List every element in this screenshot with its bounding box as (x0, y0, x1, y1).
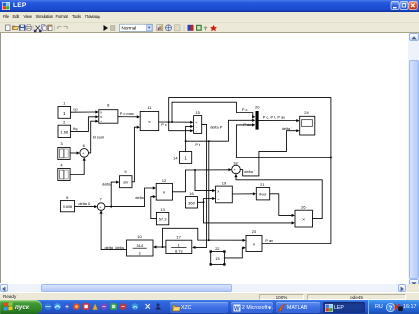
floor block 21 (256, 182, 269, 200)
svg-text:delta P: delta P (210, 125, 223, 130)
source block 4 (58, 162, 70, 180)
svg-text:2: 2 (63, 119, 66, 124)
svg-text:-: - (196, 130, 197, 134)
wire P c (product 11 to sum 15 input 1 and mux 20 input 1) (159, 102, 256, 127)
svg-text:delta: delta (115, 245, 124, 250)
constant block 13 (value 57.3) (156, 207, 168, 225)
svg-text:12: 12 (162, 178, 167, 183)
svg-text:1.66: 1.66 (60, 130, 69, 135)
svg-text:314: 314 (136, 243, 143, 248)
sin block 9 (120, 169, 133, 188)
svg-text:fiq: fiq (73, 126, 77, 131)
wire P c, P t, P av (mux 20 to scope 24 input 1) (259, 115, 300, 123)
status bar (0, 292, 419, 301)
wire (product 26 to sum 18 bottom input) (234, 174, 322, 219)
svg-text:13: 13 (160, 207, 165, 212)
svg-text:delta: delta (102, 181, 111, 186)
wire P av (product 23 to sum 15 input 3 and mux 20 input 3) (168, 98, 332, 244)
svg-text:P c: P c (242, 107, 248, 112)
greyed icon (175, 24, 181, 30)
wire up (block 1 to product 8 input 1) (71, 107, 99, 114)
constant block 2 (value 1.66) (58, 119, 71, 137)
svg-text:x: x (100, 115, 102, 119)
svg-text:6: 6 (83, 143, 86, 148)
scope block 24 (300, 110, 315, 135)
wire (block 22 to product 23 input 2) (224, 246, 245, 258)
svg-text:sin: sin (123, 181, 128, 185)
horizontal scrollbar (0, 284, 407, 292)
window title bar (0, 0, 419, 12)
sum block 18 (232, 160, 241, 174)
menu bar (0, 12, 419, 23)
svg-text:24: 24 (304, 110, 309, 115)
svg-text:x: x (217, 189, 219, 193)
mux block 20 (255, 104, 260, 129)
wire (floor 21 to product 26 input 1) (270, 194, 295, 217)
svg-text:21: 21 (260, 182, 265, 187)
svg-text:15: 15 (215, 256, 220, 261)
svg-text:19: 19 (222, 181, 227, 186)
copy (42, 24, 45, 28)
svg-text:Id sum: Id sum (93, 135, 105, 140)
wire Id sum (sum 6 to product 8 divide input) (89, 120, 105, 153)
product block 11 (140, 105, 159, 130)
wire delta (sum 7 to sin 9 and product 12) (102, 181, 156, 208)
white model canvas (0, 33, 408, 283)
toolbar (0, 23, 419, 34)
svg-text:14: 14 (173, 155, 178, 160)
svg-text:11: 11 (147, 105, 152, 110)
svg-text:16: 16 (189, 191, 194, 196)
svg-text:×: × (163, 190, 166, 196)
svg-text:delta ': delta ' (244, 169, 255, 174)
print (26, 26, 32, 29)
svg-text:4: 4 (60, 162, 63, 167)
wire delta 0 (block 5 to sum 7) (75, 201, 98, 208)
svg-text:×: × (302, 217, 305, 223)
svg-text:up: up (73, 107, 77, 112)
svg-text:8.7s: 8.7s (175, 249, 183, 254)
source block 3 (58, 141, 70, 159)
svg-text:3: 3 (60, 141, 63, 146)
wire (sin 9 to product 11 input 2) (132, 126, 140, 182)
transfer fcn block 10 (314/s) (127, 234, 154, 256)
wire (block 3 to sum 6) (70, 151, 80, 154)
svg-text:P c max: P c max (120, 111, 134, 116)
svg-text:P c: P c (161, 122, 167, 127)
svg-text:1: 1 (63, 101, 66, 106)
library browser icon (157, 24, 163, 30)
quick launch icons (42, 300, 170, 314)
wire delta' (sum 18 to scope 24 input 2) (240, 126, 299, 176)
svg-text:18: 18 (233, 160, 238, 165)
constant block 5 (value 0.698) (60, 195, 74, 212)
svg-text:1: 1 (184, 156, 187, 161)
combo box (120, 24, 153, 31)
svg-text:8: 8 (107, 103, 110, 108)
vertical scrollbar (408, 33, 419, 286)
svg-text:57.3: 57.3 (159, 217, 168, 222)
svg-text:P av: P av (243, 122, 251, 127)
wire (divide 19 to floor 21) (232, 192, 256, 195)
sum block 7 (97, 196, 105, 211)
wire delta feedback (transfer fcn 10 to sum 7 bottom) (100, 210, 127, 249)
wire (block 4 to sum 6 bottom) (70, 157, 86, 174)
open (13, 26, 19, 30)
transfer fcn block 17 (1/8.7s) (166, 235, 192, 254)
debug icon (210, 25, 217, 31)
wire delta deg (product 12 to sum 18 and divide 19 input 1) (172, 168, 231, 192)
svg-text:9: 9 (124, 169, 127, 174)
constant block 14 (value 1) (173, 152, 192, 164)
colored icons (188, 24, 191, 30)
svg-text:delta ': delta ' (282, 126, 293, 131)
svg-text:÷: ÷ (100, 120, 102, 124)
wire delta P (sum 15 to transfer fcn 17 input) (192, 124, 223, 249)
task buttons (170, 302, 228, 314)
product block 12 (156, 178, 172, 200)
wire P t (block 14 to sum 15 input 2, mux 20 input 2, node drop) (185, 119, 256, 240)
taskbar (0, 300, 419, 314)
wire 360 (block 16 to divide 19 and product 26 input 2) (198, 197, 295, 225)
svg-text:20: 20 (255, 104, 260, 109)
svg-text:delta: delta (105, 245, 114, 250)
undo/redo greyed (57, 26, 62, 28)
svg-text:360: 360 (188, 200, 195, 205)
constant block 16 (value 360) (186, 191, 198, 208)
cut (34, 25, 41, 32)
svg-text:26: 26 (301, 205, 306, 210)
sum block 15 (+ - -) (194, 110, 202, 134)
svg-text:22: 22 (215, 246, 220, 251)
svg-text:10: 10 (137, 234, 142, 239)
constant block 22 (value 15, selected) (210, 246, 226, 266)
product block 26 (295, 205, 313, 227)
svg-text:x: x (100, 111, 102, 115)
divide block 19 (x divide) (216, 181, 233, 203)
svg-text:15: 15 (195, 110, 200, 115)
system tray (368, 300, 419, 314)
svg-text:17: 17 (176, 235, 181, 240)
svg-text:1: 1 (63, 111, 66, 117)
svg-text:delta: delta (135, 195, 144, 200)
svg-text:P av: P av (265, 238, 273, 243)
save (20, 25, 26, 31)
product block 23 (246, 229, 262, 252)
svg-text:floor: floor (259, 193, 267, 197)
wire P c max (product 8 to product 11 input 1) (118, 111, 140, 119)
svg-text:÷: ÷ (217, 198, 219, 202)
play (104, 25, 109, 31)
svg-text:0.698: 0.698 (63, 205, 72, 209)
svg-text:×: × (253, 242, 256, 248)
svg-text:P c, P t, P av: P c, P t, P av (263, 115, 285, 120)
product block 8 (x x divide) (99, 103, 118, 124)
svg-text:5: 5 (66, 195, 69, 200)
svg-text:×: × (148, 119, 151, 125)
sum block 6 (80, 143, 89, 158)
new (6, 25, 11, 31)
wire omega (transfer fcn 17 to transfer fcn 10 and product 23 input 1) (153, 228, 246, 248)
model browser icon (166, 24, 172, 30)
svg-text:23: 23 (252, 229, 257, 234)
svg-text:P t: P t (195, 142, 201, 147)
svg-text:s: s (139, 250, 141, 255)
svg-text:+: + (195, 121, 197, 125)
paste (48, 25, 52, 31)
constant block 1 (value 1) (58, 101, 71, 119)
wire fiq (block 2 to product 8 input 2) (71, 115, 99, 131)
svg-text:delta 0: delta 0 (78, 201, 91, 206)
svg-text:7: 7 (100, 196, 103, 201)
wire (block 13 to product 12 input 2) (151, 195, 157, 219)
